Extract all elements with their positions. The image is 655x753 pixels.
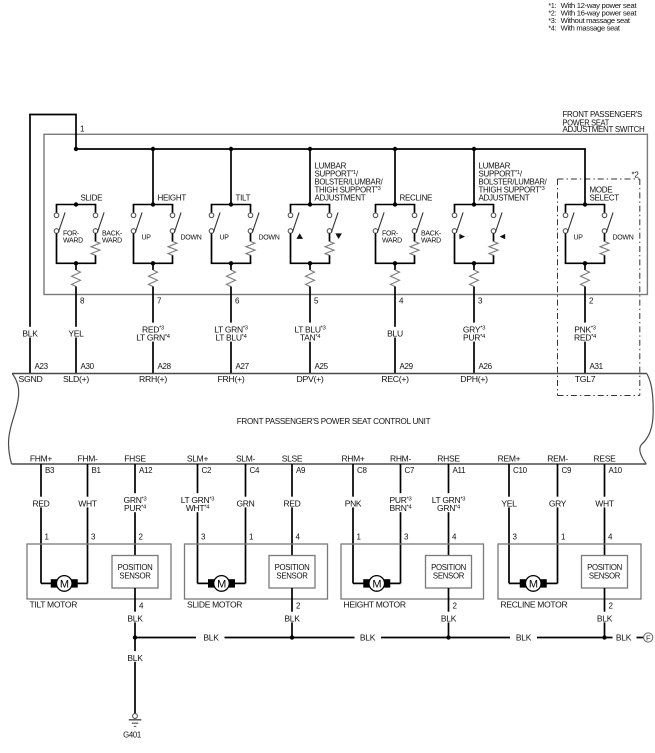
- svg-text:SENSOR: SENSOR: [433, 571, 465, 580]
- svg-text:TILT MOTOR: TILT MOTOR: [30, 599, 78, 609]
- svg-text:C7: C7: [405, 466, 415, 475]
- svg-text:A28: A28: [158, 362, 172, 371]
- junction node LUMBAR-V bottom: [308, 261, 312, 265]
- wire color label RHM+: [344, 497, 362, 509]
- wire: [152, 263, 154, 270]
- wire: MODE SELECT left branch upper: [565, 205, 567, 214]
- wire: LUMBAR-H right branch lower: [493, 233, 495, 241]
- wire color label SLM+: [178, 493, 217, 513]
- svg-text:With 12-way power seat: With 12-way power seat: [561, 3, 637, 10]
- wire REM+: [508, 464, 510, 583]
- wire: RECLINE top rail: [375, 204, 416, 206]
- svg-text:ADJUSTMENT SWITCH: ADJUSTMENT SWITCH: [563, 125, 646, 134]
- wire color BLK (recline): [594, 612, 615, 624]
- svg-text:FRH(+): FRH(+): [218, 374, 245, 384]
- resistor RECLINE right branch: [410, 242, 419, 256]
- wire: SLIDE top rail: [56, 204, 97, 206]
- wire: [172, 255, 174, 263]
- junction node HEIGHT top: [151, 202, 155, 206]
- wire: LUMBAR-V top rail: [290, 204, 331, 206]
- contact SLIDE right: [93, 213, 98, 218]
- wire: [604, 255, 606, 263]
- wire RHSE: [448, 464, 450, 556]
- svg-text:B3: B3: [45, 466, 55, 475]
- wire sensor output (tilt) BLK: [134, 588, 136, 638]
- wire: LUMBAR-H bottom rail: [454, 262, 495, 264]
- switch RECLINE: [373, 149, 442, 374]
- svg-text:ADJUSTMENT: ADJUSTMENT: [479, 194, 530, 203]
- svg-text:TGL7: TGL7: [575, 374, 596, 384]
- svg-text:SLIDE MOTOR: SLIDE MOTOR: [187, 599, 242, 609]
- wire: SLIDE left branch lower: [56, 233, 58, 263]
- wire: [230, 263, 232, 270]
- position sensor (height): [426, 556, 472, 589]
- junction node MODE SELECT top: [583, 202, 587, 206]
- svg-text:SLM-: SLM-: [236, 454, 256, 464]
- wire: TILT to control unit: [230, 287, 232, 374]
- junction node TILT bottom: [229, 261, 233, 265]
- junction node HEIGHT bottom: [151, 261, 155, 265]
- motor M (slide): [198, 576, 246, 592]
- wire: RECLINE right branch upper: [414, 205, 416, 214]
- svg-text:BLK: BLK: [127, 653, 143, 663]
- contact TILT left: [209, 213, 214, 218]
- junction node SLIDE top: [74, 202, 78, 206]
- wire: HEIGHT left branch lower: [133, 233, 135, 263]
- wire: SLIDE to control unit: [75, 287, 77, 374]
- wire: SLIDE bottom rail: [56, 262, 97, 264]
- svg-text:A27: A27: [236, 362, 250, 371]
- box: TILT MOTOR: [27, 544, 171, 599]
- svg-text:RRH(+): RRH(+): [139, 374, 167, 384]
- contact HEIGHT left: [131, 213, 136, 218]
- svg-text:BLK: BLK: [360, 633, 376, 643]
- resistor LUMBAR-V right branch: [325, 242, 334, 256]
- svg-text:A30: A30: [81, 362, 95, 371]
- wire: LUMBAR-V bottom rail: [290, 262, 331, 264]
- svg-text:A10: A10: [609, 466, 623, 475]
- wire: [493, 255, 495, 263]
- wire color label SLIDE: [67, 327, 85, 339]
- wire: bus feeder to HEIGHT: [152, 149, 154, 205]
- svg-text:BLK: BLK: [127, 613, 143, 623]
- junction node bus x=448.5: [446, 635, 450, 639]
- wire color BLK (slide): [282, 612, 303, 624]
- svg-text:REM+: REM+: [498, 454, 521, 464]
- junction node bus x=135: [133, 635, 137, 639]
- resistor TILT right branch: [246, 242, 255, 256]
- svg-text:RHSE: RHSE: [437, 454, 460, 464]
- svg-text:A25: A25: [315, 362, 329, 371]
- wire FHM-: [87, 464, 89, 583]
- wire: LUMBAR-V left branch lower: [290, 233, 292, 263]
- wire color label RHM-: [389, 493, 413, 513]
- wire: LUMBAR-V to control unit: [309, 287, 311, 374]
- svg-text:SENSOR: SENSOR: [276, 571, 308, 580]
- svg-text:YEL: YEL: [68, 329, 84, 339]
- svg-text:C10: C10: [513, 466, 528, 475]
- junction node bus x=474: [472, 147, 476, 151]
- junction node bus x=310: [308, 147, 312, 151]
- wire REM-: [557, 464, 559, 583]
- svg-text:YEL: YEL: [501, 498, 517, 508]
- svg-text:GRN: GRN: [237, 498, 255, 508]
- svg-text:TILT: TILT: [236, 194, 251, 203]
- wire: LUMBAR-V right branch upper: [329, 205, 331, 214]
- wire color label RECLINE: [386, 327, 404, 339]
- wire color label HEIGHT: [134, 323, 173, 343]
- svg-text:*2:: *2:: [548, 11, 556, 18]
- wire: [95, 255, 97, 263]
- svg-text:RECLINE MOTOR: RECLINE MOTOR: [501, 599, 568, 609]
- svg-text:RHM-: RHM-: [390, 454, 411, 464]
- contact MODE SELECT left: [563, 213, 568, 218]
- svg-text:PNK: PNK: [345, 498, 362, 508]
- svg-text:FOR-: FOR-: [382, 230, 399, 237]
- junction node bus x=604.5: [602, 635, 606, 639]
- wire: RECLINE bottom rail: [375, 262, 416, 264]
- wire: TILT left branch upper: [211, 205, 213, 214]
- svg-text:C4: C4: [250, 466, 260, 475]
- svg-text:WHT: WHT: [595, 498, 614, 508]
- svg-text:WARD: WARD: [421, 237, 441, 244]
- wire SLM-: [245, 464, 247, 583]
- svg-text:RED: RED: [283, 498, 300, 508]
- wire: bus feeder to LUMBAR-V: [309, 149, 311, 205]
- wire: [329, 255, 331, 263]
- motor M (tilt): [41, 576, 88, 592]
- wire: RECLINE right branch lower: [414, 233, 416, 241]
- wire: MODE SELECT to control unit: [584, 287, 586, 374]
- box: power seat adjustment switch outline: [44, 134, 647, 294]
- resistor HEIGHT series: [149, 270, 158, 287]
- svg-text:FHM+: FHM+: [30, 454, 53, 464]
- svg-text:F: F: [646, 633, 651, 642]
- resistor SLIDE series: [72, 270, 81, 287]
- resistor TILT series: [227, 270, 236, 287]
- svg-text:M: M: [372, 578, 381, 590]
- svg-text:With 16-way power seat: With 16-way power seat: [561, 11, 637, 18]
- wire: MODE SELECT right branch upper: [604, 205, 606, 214]
- resistor MODE SELECT right branch: [600, 242, 609, 256]
- switch LUMBAR-V: [288, 149, 383, 374]
- svg-text:DOWN: DOWN: [259, 235, 280, 242]
- junction node bus x=395: [393, 147, 397, 151]
- svg-text:DPV(+): DPV(+): [297, 374, 324, 384]
- resistor SLIDE right branch: [91, 242, 100, 256]
- svg-text:RED: RED: [32, 498, 49, 508]
- wire: LUMBAR-V left branch upper: [290, 205, 292, 214]
- svg-text:WHT: WHT: [78, 498, 97, 508]
- wire: TILT right branch upper: [250, 205, 252, 214]
- wire color label LUMBAR-V: [291, 323, 330, 343]
- ground G401: [129, 714, 142, 727]
- position sensor (tilt): [112, 556, 158, 589]
- contact LUMBAR-V left: [288, 213, 293, 218]
- switch SLIDE: [54, 194, 123, 374]
- wire: bus feeder to RECLINE: [394, 149, 396, 205]
- contact LUMBAR-V right: [327, 213, 332, 218]
- svg-text:B1: B1: [92, 466, 102, 475]
- wire: bus feeder to TILT: [230, 149, 232, 205]
- wire color label REM+: [500, 497, 518, 509]
- wire FHSE: [134, 464, 136, 556]
- wire color label SLM-: [236, 497, 254, 509]
- wire color BLK (height): [438, 612, 459, 624]
- wire color label FHM-: [78, 497, 97, 509]
- wire SLM+: [197, 464, 199, 583]
- position sensor (slide): [269, 556, 315, 589]
- svg-text:*4:: *4:: [548, 26, 556, 33]
- svg-text:DOWN: DOWN: [613, 235, 634, 242]
- svg-text:SELECT: SELECT: [590, 194, 620, 203]
- svg-text:C8: C8: [357, 466, 367, 475]
- wire RHM+: [352, 464, 354, 583]
- resistor LUMBAR-H right branch: [489, 242, 498, 256]
- svg-text:HEIGHT: HEIGHT: [158, 194, 187, 203]
- box: RECLINE MOTOR: [498, 544, 641, 599]
- svg-text:SENSOR: SENSOR: [119, 571, 151, 580]
- wire: MODE SELECT left branch lower: [565, 233, 567, 263]
- wire RESE: [604, 464, 606, 556]
- svg-text:SENSOR: SENSOR: [589, 571, 621, 580]
- wire: HEIGHT bottom rail: [133, 262, 174, 264]
- svg-text:BLK: BLK: [22, 329, 38, 339]
- motor M (recline): [509, 576, 558, 592]
- wire: [309, 263, 311, 270]
- svg-text:UP: UP: [574, 235, 584, 242]
- wire: MODE SELECT right branch lower: [604, 233, 606, 241]
- svg-text:FRONT PASSENGER'S POWER SEAT C: FRONT PASSENGER'S POWER SEAT CONTROL UNI…: [237, 416, 431, 426]
- wire: LUMBAR-H left branch lower: [454, 233, 456, 263]
- wire color label FHM+: [32, 497, 50, 509]
- contact LUMBAR-H right: [491, 213, 496, 218]
- contact TILT right: [248, 213, 253, 218]
- svg-text:BLK: BLK: [616, 633, 632, 643]
- junction node LUMBAR-H bottom: [472, 261, 476, 265]
- svg-text:*2: *2: [632, 170, 640, 179]
- svg-text:Without massage seat: Without massage seat: [561, 18, 630, 25]
- wire pin 1 (BLK / SGND feed): [29, 114, 77, 374]
- svg-text:ADJUSTMENT: ADJUSTMENT: [315, 194, 366, 203]
- svg-text:G401: G401: [123, 730, 141, 739]
- wire: SLIDE right branch upper: [95, 205, 97, 214]
- wire color BLK (pin1): [20, 327, 41, 339]
- wire: HEIGHT right branch upper: [172, 205, 174, 214]
- wire color BLK (tilt): [125, 612, 146, 624]
- box: SLIDE MOTOR: [185, 544, 328, 599]
- svg-text:SLIDE: SLIDE: [81, 194, 103, 203]
- svg-text:HEIGHT MOTOR: HEIGHT MOTOR: [344, 599, 406, 609]
- wire sensor output (height) BLK: [448, 588, 450, 638]
- svg-text:DPH(+): DPH(+): [460, 374, 488, 384]
- switch TILT: [209, 149, 280, 374]
- wire: SLIDE right branch lower: [95, 233, 97, 241]
- wire: [414, 255, 416, 263]
- dashed box *2 (16-way power seat): [558, 179, 640, 396]
- svg-text:A9: A9: [296, 466, 306, 475]
- svg-text:A23: A23: [35, 362, 49, 371]
- svg-text:With massage seat: With massage seat: [561, 26, 620, 33]
- wire color label MODE SELECT: [573, 323, 597, 343]
- svg-text:*1:: *1:: [548, 3, 556, 10]
- svg-text:RECLINE: RECLINE: [400, 194, 433, 203]
- svg-text:FHM-: FHM-: [77, 454, 98, 464]
- wire: [584, 263, 586, 270]
- svg-text:SLM+: SLM+: [187, 454, 209, 464]
- svg-text:BLK: BLK: [441, 613, 457, 623]
- svg-text:FOR-: FOR-: [63, 230, 80, 237]
- svg-text:SGND: SGND: [19, 374, 43, 384]
- note legend *1..*4: [548, 3, 636, 33]
- contact MODE SELECT right: [602, 213, 607, 218]
- svg-text:WARD: WARD: [63, 237, 83, 244]
- contact LUMBAR-H left: [452, 213, 457, 218]
- contact SLIDE left: [54, 213, 59, 218]
- wire color label REM-: [548, 497, 566, 509]
- wire: MODE SELECT top rail: [565, 204, 606, 206]
- wire sensor output (recline) BLK: [604, 588, 606, 638]
- junction node bus x=292: [290, 635, 294, 639]
- svg-text:BACK-: BACK-: [421, 230, 442, 237]
- svg-text:WARD: WARD: [382, 237, 402, 244]
- svg-text:A12: A12: [139, 466, 153, 475]
- junction node LUMBAR-H top: [472, 202, 476, 206]
- wire color label RHSE: [429, 493, 468, 513]
- junction node TILT top: [229, 202, 233, 206]
- svg-text:FHSE: FHSE: [124, 454, 146, 464]
- resistor HEIGHT right branch: [168, 242, 177, 256]
- wire color label LUMBAR-H: [462, 323, 486, 343]
- svg-text:UP: UP: [220, 235, 230, 242]
- svg-text:REC(+): REC(+): [381, 374, 409, 384]
- svg-text:RHM+: RHM+: [341, 454, 364, 464]
- wire: SLIDE left branch upper: [56, 205, 58, 214]
- wire SLSE: [291, 464, 293, 556]
- svg-text:DOWN: DOWN: [181, 235, 202, 242]
- svg-text:C9: C9: [562, 466, 572, 475]
- contact RECLINE left: [373, 213, 378, 218]
- svg-text:GRY: GRY: [549, 498, 567, 508]
- wire: RECLINE to control unit: [394, 287, 396, 374]
- svg-text:BLK: BLK: [597, 613, 613, 623]
- resistor LUMBAR-V series: [306, 270, 315, 287]
- wire color BLK (ground wire): [125, 651, 146, 663]
- motor M (height): [353, 576, 401, 592]
- contact HEIGHT right: [170, 213, 175, 218]
- junction node bus x=231: [229, 147, 233, 151]
- svg-text:A11: A11: [453, 466, 467, 475]
- svg-text:M: M: [529, 578, 538, 590]
- svg-text:A31: A31: [590, 362, 604, 371]
- svg-text:BLK: BLK: [516, 633, 532, 643]
- wire: TILT left branch lower: [211, 233, 213, 263]
- wire color label SLSE: [283, 497, 301, 509]
- wire sensor output (slide) BLK: [291, 588, 293, 638]
- wire: HEIGHT right branch lower: [172, 233, 174, 241]
- position sensor (recline): [582, 556, 628, 589]
- wire: HEIGHT top rail: [133, 204, 174, 206]
- wire: RECLINE left branch lower: [375, 233, 377, 263]
- svg-text:WARD: WARD: [102, 237, 122, 244]
- wire: [75, 263, 77, 270]
- junction node SLIDE bottom: [74, 261, 78, 265]
- svg-text:BACK-: BACK-: [102, 230, 123, 237]
- wire: bus feeder to LUMBAR-H: [473, 149, 475, 205]
- svg-text:A26: A26: [479, 362, 493, 371]
- wire to ground BLK: [134, 638, 136, 714]
- wire: TILT bottom rail: [211, 262, 252, 264]
- resistor MODE SELECT series: [581, 270, 590, 287]
- junction node LUMBAR-V top: [308, 202, 312, 206]
- label: FRONT PASSENGER'S POWER SEAT ADJUSTMENT SWITCH: [563, 110, 646, 134]
- junction node MODE SELECT bottom: [583, 261, 587, 265]
- svg-text:UP: UP: [142, 235, 152, 242]
- wire color label FHSE: [123, 493, 147, 513]
- connector F: [644, 633, 653, 642]
- box: HEIGHT MOTOR: [341, 544, 484, 599]
- wire RHM-: [400, 464, 402, 583]
- switch HEIGHT: [131, 149, 202, 374]
- wire: LUMBAR-H to control unit: [473, 287, 475, 374]
- svg-text:RESE: RESE: [594, 454, 617, 464]
- svg-text:C2: C2: [202, 466, 212, 475]
- svg-text:BLK: BLK: [203, 633, 219, 643]
- svg-text:*3:: *3:: [548, 18, 556, 25]
- svg-text:BLU: BLU: [387, 329, 403, 339]
- switch LUMBAR-H: [452, 149, 547, 374]
- wire: TILT top rail: [211, 204, 252, 206]
- wire: bus feeder to MODE SELECT: [584, 149, 586, 205]
- wire: LUMBAR-H left branch upper: [454, 205, 456, 214]
- junction node bus x=76: [74, 147, 78, 151]
- wire: LUMBAR-H top rail: [454, 204, 495, 206]
- junction node RECLINE bottom: [393, 261, 397, 265]
- resistor RECLINE series: [391, 270, 400, 287]
- wire: [473, 263, 475, 270]
- switch MODE SELECT: [563, 149, 634, 374]
- wire color label RESE: [595, 497, 614, 509]
- wire: HEIGHT to control unit: [152, 287, 154, 374]
- wire: MODE SELECT bottom rail: [565, 262, 606, 264]
- svg-text:M: M: [60, 578, 69, 590]
- wire: [394, 263, 396, 270]
- resistor LUMBAR-H series: [470, 270, 479, 287]
- svg-text:M: M: [217, 578, 226, 590]
- junction node RECLINE top: [393, 202, 397, 206]
- wire: LUMBAR-V right branch lower: [329, 233, 331, 241]
- contact RECLINE right: [412, 213, 417, 218]
- wire: switch supply bus: [75, 148, 586, 150]
- svg-text:SLSE: SLSE: [282, 454, 303, 464]
- wire color label TILT: [212, 323, 251, 343]
- box: front passenger power seat control unit (torn band): [9, 374, 654, 465]
- svg-text:BLK: BLK: [284, 613, 300, 623]
- wire: RECLINE left branch upper: [375, 205, 377, 214]
- svg-text:SLD(+): SLD(+): [63, 374, 89, 384]
- wire FHM+: [40, 464, 42, 583]
- wire: HEIGHT left branch upper: [133, 205, 135, 214]
- wire: ground bus BLK: [135, 637, 643, 639]
- wire: [250, 255, 252, 263]
- wire: TILT right branch lower: [250, 233, 252, 241]
- svg-text:A29: A29: [400, 362, 414, 371]
- junction node bus x=153: [151, 147, 155, 151]
- svg-text:REM-: REM-: [547, 454, 568, 464]
- wire: LUMBAR-H right branch upper: [493, 205, 495, 214]
